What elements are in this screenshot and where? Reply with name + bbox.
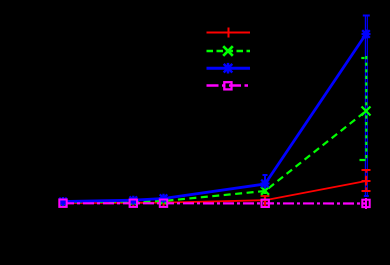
- blue series line (thick): [63, 34, 366, 202]
- legend entry 1: red line with + marker: [207, 28, 251, 38]
- blue * markers: [59, 30, 371, 207]
- magenta series line (dash-dot): [63, 202, 366, 204]
- legend entry 2: green dashed line with x marker: [207, 46, 251, 56]
- green dashed error bar at x=265: [264, 184, 266, 200]
- legend entry 3: blue thick line with * marker: [207, 63, 251, 74]
- green dashed error bar at x=366: [360, 56, 367, 160]
- red + markers: [59, 177, 371, 208]
- blue error bar at x=265: [263, 175, 268, 194]
- magenta error bar at x=366: [365, 198, 367, 209]
- red error bar at x=265: [261, 196, 270, 207]
- green series line (dashed): [63, 111, 366, 202]
- magenta open square markers: [59, 200, 369, 208]
- green x markers: [60, 107, 371, 206]
- red error bar at x=366: [362, 170, 371, 191]
- legend entry 4: magenta dash-dot line with open square marker: [207, 82, 251, 89]
- blue error bar at x=366: [363, 15, 370, 196]
- red series line: [63, 181, 366, 203]
